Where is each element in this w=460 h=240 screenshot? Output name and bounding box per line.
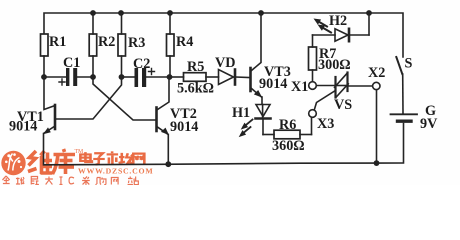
svg-text:R2: R2 — [98, 34, 115, 50]
node dot VT2 emitter bottom — [165, 161, 171, 167]
svg-text:360Ω: 360Ω — [272, 138, 305, 154]
node dot B (R2/C1/VT2 base) — [90, 74, 96, 80]
char gou — [96, 178, 106, 186]
svg-text:9014: 9014 — [259, 76, 287, 92]
switch S — [396, 57, 403, 113]
wire bottom rail — [44, 124, 404, 165]
char da — [45, 177, 53, 185]
thyristor VS — [316, 73, 372, 98]
node dot D (R4/C2/VT2 collector/R5) — [167, 74, 173, 80]
LED H2 — [313, 13, 370, 41]
watermark char wang — [133, 154, 144, 165]
node dot R4 top — [167, 10, 173, 16]
node dot R2 top — [90, 10, 96, 16]
wire top rail — [44, 13, 403, 57]
svg-text:X2: X2 — [368, 65, 385, 81]
char qiu — [16, 177, 24, 185]
char I — [59, 177, 62, 185]
watermark char chang — [119, 153, 134, 164]
svg-text:R4: R4 — [176, 34, 193, 50]
watermark bottom row — [2, 176, 138, 185]
terminal X3 — [309, 110, 317, 118]
svg-text:R1: R1 — [49, 34, 66, 50]
svg-text:R3: R3 — [128, 35, 145, 51]
resistor R7 — [309, 35, 317, 82]
char wang2 — [111, 178, 118, 185]
char cai — [82, 177, 90, 186]
transistor VT3 — [251, 13, 263, 104]
char C — [69, 177, 74, 184]
resistor R6 — [263, 118, 312, 139]
svg-text:X1: X1 — [291, 79, 308, 95]
transistor VT1 — [43, 77, 122, 134]
resistor R1 — [41, 13, 94, 77]
watermark char dian — [80, 152, 92, 162]
wire VS gate — [314, 91, 335, 110]
svg-text:X3: X3 — [317, 116, 334, 132]
svg-text:5.6kΩ: 5.6kΩ — [177, 81, 214, 97]
watermark logo — [1, 149, 153, 185]
char quan — [2, 176, 9, 184]
svg-text:300Ω: 300Ω — [318, 57, 351, 73]
capacitor C1 — [44, 68, 93, 86]
svg-text:R5: R5 — [187, 59, 204, 75]
logo circle icon — [1, 151, 25, 175]
transistor VT2 — [93, 77, 169, 164]
diode VD — [219, 70, 250, 85]
wire X2 to bottom rail — [376, 90, 378, 163]
terminal X2 — [373, 82, 380, 89]
resistor R3 — [118, 13, 126, 77]
battery G — [391, 114, 418, 121]
svg-text:H1: H1 — [232, 105, 250, 121]
svg-text:VD: VD — [215, 55, 236, 71]
watermark char ku — [53, 149, 76, 174]
node dot R3 top — [118, 10, 124, 16]
svg-text:9014: 9014 — [170, 119, 198, 135]
svg-text:C1: C1 — [63, 55, 80, 71]
resistor R4 — [167, 13, 175, 77]
LED H1 — [239, 105, 271, 138]
node dot X2 bottom — [374, 160, 380, 166]
char zui — [31, 177, 39, 185]
char zhan — [128, 177, 139, 185]
svg-text:S: S — [405, 56, 413, 72]
resistor R5 — [170, 73, 219, 82]
node dot A (R1/C1/VT1 collector) — [41, 74, 47, 80]
svg-text:9014: 9014 — [9, 119, 37, 135]
node dot H2 branch top — [366, 10, 372, 16]
watermark char zi — [93, 153, 105, 164]
terminal X1 — [309, 82, 317, 90]
resistor R2 — [89, 34, 97, 77]
svg-text:VS: VS — [334, 97, 352, 113]
node dot VT3 collector top — [258, 10, 264, 16]
watermark char shi — [107, 151, 119, 164]
svg-text:H2: H2 — [329, 13, 347, 29]
svg-text:C2: C2 — [133, 56, 150, 72]
svg-text:R6: R6 — [279, 117, 296, 133]
svg-text:WWW.DZSC.COM: WWW.DZSC.COM — [78, 166, 153, 175]
node dot C (R3/C2/VT1 base) — [119, 74, 125, 80]
watermark char wei — [28, 151, 53, 174]
svg-text:9V: 9V — [420, 116, 438, 132]
capacitor C2 — [122, 68, 170, 87]
